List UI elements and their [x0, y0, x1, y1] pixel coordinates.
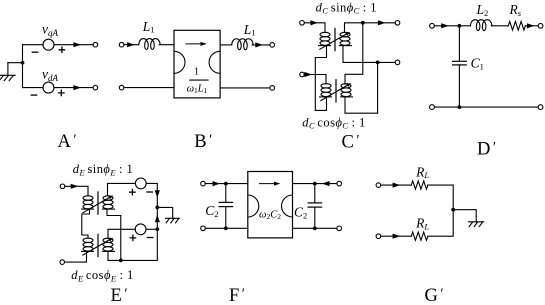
resistor RL bottom: [411, 232, 428, 240]
wire top branch left: [23, 44, 44, 46]
wire bottom branch left: [23, 87, 44, 89]
transformer T4 E primary winding: [82, 238, 94, 251]
transformer T1 C core: [334, 28, 336, 50]
wire mid output: [378, 61, 396, 63]
ground G: [469, 222, 484, 227]
arrow D output: [527, 23, 535, 28]
inductor L1 right: [232, 39, 254, 50]
wire trunk vertical: [22, 45, 24, 88]
arrow inside box F: [260, 183, 277, 185]
wire T3 primary bottom jog to T4 primary top: [82, 209, 90, 238]
transformer T4 E core: [97, 234, 99, 256]
resistor RL top: [411, 181, 428, 189]
wire node down to C1: [458, 26, 460, 62]
node F bottom left junction: [224, 226, 228, 230]
svg-text:ω1L1: ω1L1: [187, 84, 208, 96]
ground: [0, 63, 15, 81]
wire E bottom input to T4 primary bottom: [65, 251, 87, 262]
wire F bottom right: [293, 227, 337, 229]
wire junction down to T2 secondary top: [345, 23, 363, 84]
transformer T2 C variable arrow: [321, 85, 348, 101]
svg-text:1: 1: [194, 67, 199, 78]
node circle2 junction: [155, 227, 159, 231]
source vdA: [43, 82, 54, 93]
transformer T1 C variable arrow: [320, 34, 347, 50]
arrow vqA output: [73, 42, 81, 47]
arrow B top input: [127, 42, 135, 47]
wire D input to node: [434, 25, 459, 27]
transformer T3 E variable arrow: [83, 197, 110, 213]
wire G top left: [381, 184, 412, 186]
terminal D top input: [430, 23, 435, 28]
arrow vdA output: [73, 85, 81, 90]
wire L2 to Rs: [491, 25, 508, 27]
transformer T2 C secondary winding: [341, 84, 353, 97]
wire vertical ground tap to circle2 junction: [156, 207, 158, 229]
arrow F left input: [213, 181, 221, 186]
terminal F bottom left: [201, 226, 206, 231]
terminal B top input: [119, 42, 124, 47]
terminal F bottom right: [337, 226, 342, 231]
wire T3 secondary top to source circle 1: [108, 183, 136, 195]
node bottom wire junction: [119, 259, 123, 263]
terminal D bottom left: [430, 105, 435, 110]
wire RL bottom to vertical: [428, 210, 453, 237]
minus sign circle2: [147, 237, 152, 239]
plus sign circle2: [130, 235, 135, 240]
transformer T2 C core: [335, 80, 337, 102]
arrow E top input: [71, 184, 79, 189]
wire node to L2: [459, 25, 470, 27]
arrow C bottom input: [304, 72, 312, 77]
transformer T4 E secondary winding: [103, 238, 115, 251]
arrow down right vertical: [155, 190, 160, 198]
wire B bottom left: [124, 87, 174, 89]
arc right box B: [209, 51, 220, 73]
arrow C top output: [378, 20, 386, 25]
terminal E bottom input: [60, 260, 65, 265]
wire F top right: [293, 183, 337, 185]
source vqA: [43, 39, 54, 50]
node F bottom right junction: [313, 226, 317, 230]
source circle 1 E: [135, 178, 146, 189]
wire B top input: [124, 44, 139, 46]
wire right vertical to bottom loop: [108, 229, 157, 260]
terminal A q output: [93, 42, 98, 47]
wire T2 secondary bottom loop to mid junction: [345, 64, 378, 113]
transformer T1 C primary winding: [319, 32, 331, 45]
terminal C bottom input: [300, 72, 305, 77]
transformer T3 E secondary winding: [103, 196, 115, 209]
wire G ground tap: [453, 210, 476, 222]
arrow B top output: [255, 42, 262, 47]
transformer T1 C secondary winding: [340, 32, 352, 45]
wire C bottom input: [304, 75, 326, 84]
terminal G top input: [376, 183, 381, 188]
terminal D top output: [538, 23, 543, 28]
arc left box B: [174, 51, 185, 73]
terminal C mid output: [395, 60, 400, 65]
terminal B bottom output: [270, 86, 275, 91]
ground E: [166, 218, 180, 223]
node junction trunk: [21, 61, 25, 65]
wire vdA to terminal: [54, 87, 93, 89]
arrow G top input: [393, 183, 401, 188]
wire inductor to box: [159, 44, 174, 46]
gyrator box F: [248, 172, 293, 238]
wire T1 secondary top to output: [345, 23, 396, 33]
transformer T3 E core: [97, 192, 99, 214]
wire F top left: [205, 183, 248, 185]
terminal F top left: [201, 181, 206, 186]
node top output junction: [361, 21, 365, 25]
wire ground to trunk: [8, 62, 23, 64]
node ground tap junction: [155, 206, 159, 210]
wire box to inductor right: [220, 44, 232, 46]
wire T3 secondary bottom jog to bottom wire: [107, 209, 121, 260]
arrow C top input: [310, 20, 318, 25]
node F top right junction: [313, 182, 317, 186]
source circle 2 E: [135, 224, 146, 235]
node mid output junction: [376, 61, 380, 65]
arrow D input: [441, 23, 449, 28]
arrow G bottom input: [393, 234, 401, 239]
node D top junction: [458, 24, 462, 28]
transformer T2 C primary winding: [320, 84, 332, 97]
wire D bottom: [434, 106, 538, 108]
minus sign vqA: [32, 51, 37, 53]
wire C1 down to bottom: [458, 65, 460, 107]
plus sign vdA: [59, 90, 64, 95]
node G junction: [451, 208, 455, 212]
terminal B top output: [270, 43, 275, 48]
capacitor C2 right: [308, 184, 322, 229]
minus sign vdA: [31, 94, 36, 96]
capacitor C2 left: [219, 184, 233, 229]
wire vqA to terminal: [54, 44, 93, 46]
arrow up right vertical: [155, 215, 160, 223]
resistor Rs: [508, 22, 525, 31]
terminal A d output: [93, 85, 98, 90]
svg-text:ω2C2: ω2C2: [259, 210, 281, 222]
wire T1 secondary bottom to mid output: [343, 46, 378, 63]
arc right box F: [282, 195, 293, 217]
arrow F right input pointing left: [322, 181, 330, 186]
terminal G bottom input: [376, 234, 381, 239]
transformer T3 E primary winding: [82, 196, 94, 209]
wire G bottom left: [381, 235, 412, 237]
terminal C top input: [300, 21, 305, 26]
wire circle1 to right vertical: [146, 183, 157, 207]
wire inductor to terminal right: [252, 44, 270, 46]
node F top left junction: [224, 182, 228, 186]
arc left box F: [248, 195, 259, 217]
plus sign vqA: [59, 47, 64, 52]
wire RL top to vertical: [428, 185, 453, 210]
wire circle2 right: [146, 228, 157, 230]
minus sign circle1: [147, 191, 152, 193]
terminal C top output: [395, 21, 400, 26]
wire F bottom left: [205, 227, 248, 229]
arrow inside box B: [186, 43, 203, 45]
wire ground tap: [157, 207, 172, 218]
capacitor C1: [453, 61, 467, 65]
wire E top input: [65, 186, 88, 196]
node D bottom junction: [458, 105, 462, 109]
wire C top input: [304, 23, 325, 33]
wire B bottom right: [220, 87, 270, 89]
gyrator box B: [174, 30, 220, 98]
wire T1 primary bottom bypass to T2 primary bottom: [315, 46, 326, 111]
terminal D bottom right: [538, 105, 543, 110]
wire circle2 left to T4 secondary top: [108, 229, 135, 238]
terminal E top input: [60, 184, 65, 189]
terminal B bottom input: [119, 85, 124, 90]
transformer T4 E variable arrow: [83, 239, 110, 255]
inductor L2: [470, 20, 492, 31]
plus sign circle1: [130, 190, 135, 195]
wire Rs to terminal: [525, 25, 538, 27]
inductor L1 left: [139, 39, 161, 50]
terminal F top right: [337, 181, 342, 186]
